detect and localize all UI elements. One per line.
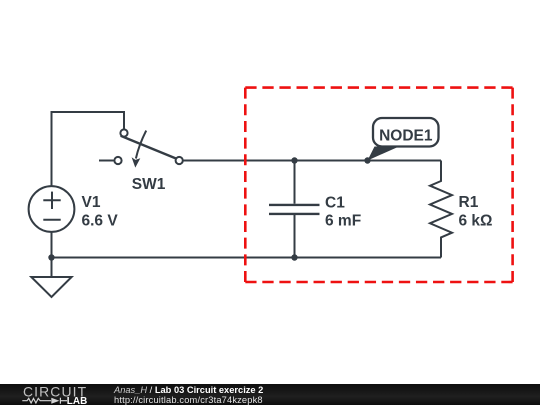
capacitor C1 [269,161,320,258]
svg-text:C1: C1 [325,194,345,211]
junction: top rail / capacitor [291,157,297,163]
wire: bottom rail [52,257,442,259]
junction: bottom rail / capacitor [291,254,297,260]
footer title line [114,385,263,396]
svg-text:SW1: SW1 [132,176,166,193]
ground [31,258,71,298]
footer url line [114,395,263,405]
voltage source V1 [29,186,75,232]
svg-text:LAB: LAB [67,396,88,405]
svg-text:6 mF: 6 mF [325,213,361,230]
CircuitLab logo [0,384,110,405]
wire: main top rail from switch to R1 [183,160,441,162]
annotation: red dashed box [245,88,512,282]
wire: switch open-throw stub [99,160,114,162]
wire: V1 top to corner [52,112,125,187]
svg-text:6 kΩ: 6 kΩ [459,213,493,230]
footer bar [0,384,540,405]
svg-text:NODE1: NODE1 [379,127,433,144]
resistor R1 [430,161,452,258]
node NODE1 callout [368,118,439,161]
switch SW1 [114,129,182,164]
svg-text:6.6 V: 6.6 V [82,213,119,230]
junction: NODE1 point [364,157,370,163]
wire: V1 bottom to ground node [51,232,53,258]
switch arrow head [132,157,141,167]
svg-text:V1: V1 [82,194,101,211]
junction: bottom rail / ground [48,254,54,260]
svg-text:R1: R1 [459,194,479,211]
